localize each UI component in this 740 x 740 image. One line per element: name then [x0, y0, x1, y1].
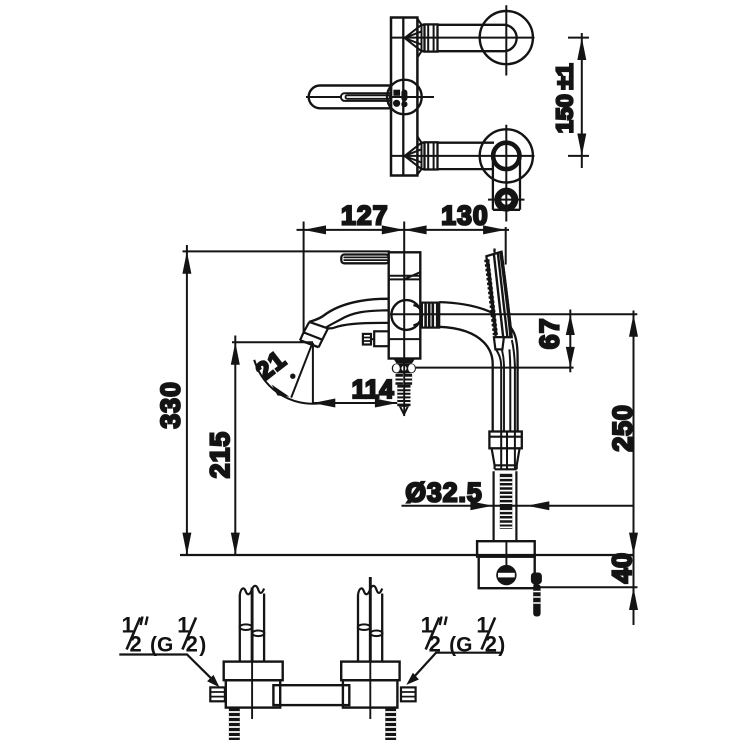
bottom union trumpet cone [405, 136, 422, 174]
ext line top of faucet (330) [183, 250, 391, 252]
dia 32.5 right arrow [527, 501, 549, 510]
lever slot inner [346, 95, 391, 99]
shower elbow downpipe [493, 158, 520, 210]
svg-text:330: 330 [156, 381, 186, 429]
shower head top nub [493, 249, 495, 253]
dia 32.5 left arrow [470, 501, 492, 510]
hose lower curve [439, 327, 493, 432]
hot indicator square [393, 90, 400, 96]
svg-text:130: 130 [441, 201, 489, 231]
coupling inner lines [501, 432, 515, 470]
hose nipple tip [399, 406, 409, 416]
svg-text:(G: (G [150, 634, 173, 657]
21deg arc arrowhead [272, 385, 290, 397]
dim line 150 [581, 33, 583, 168]
left pipe break (tube end ellipses) [240, 624, 253, 630]
hook knuckle [531, 573, 542, 585]
spout tip seam 2 [304, 332, 323, 339]
diverter horizontal centerline / 67-250 upper ext line [390, 313, 637, 315]
lever handle (plan) [309, 86, 391, 109]
faucet body (front) [389, 252, 421, 358]
dim line 114 [313, 402, 397, 404]
diverter knob [422, 303, 439, 328]
dim line 215 [234, 336, 236, 556]
top wall flange circle [480, 11, 533, 64]
deck mounting line [180, 554, 634, 556]
arrow 330 top [182, 251, 191, 273]
hose coupling taper [492, 448, 520, 469]
bracket body [479, 557, 535, 589]
arrow 215 top [231, 342, 240, 364]
diverter circle [391, 300, 421, 330]
left union block upper [224, 662, 283, 681]
hose coupling upper [489, 432, 521, 449]
hose upper curve [439, 302, 517, 431]
svg-text:215: 215 [205, 431, 235, 479]
bracket screw [496, 565, 516, 585]
faucet body plate (plan) [391, 18, 417, 176]
ext line spout tip [303, 222, 305, 335]
spout middle curve [326, 310, 389, 327]
top union trumpet cone [405, 19, 422, 58]
left supply pipe (twin tubes) [240, 594, 264, 662]
dim line 127 / 130 [297, 229, 510, 231]
arrow 150 bottom [577, 134, 586, 156]
indicator bar [401, 90, 407, 102]
dia 32.5 leader line [402, 505, 634, 507]
hose inner line 3 [508, 349, 511, 431]
hose nipple upper [396, 374, 413, 385]
right supply pipe (twin tubes) [358, 594, 382, 662]
21deg degree dot [290, 374, 295, 379]
bottom flange horizontal centerline [390, 155, 535, 157]
top supply pipe [438, 25, 506, 51]
ext line faucet centerline (front view axis) [403, 222, 405, 405]
corrugated hose coil [500, 474, 513, 529]
top pipe end cap arc [505, 25, 517, 51]
holder tube outer [494, 471, 517, 541]
ext line 150 top [568, 37, 589, 39]
hose nipple ribbed [397, 385, 410, 406]
left pipe twin junction line [251, 588, 254, 662]
arrow 150 top [577, 38, 586, 60]
arrow 114 left [313, 399, 335, 408]
top union neck [422, 25, 425, 51]
right label fraction slashes and quotes [426, 618, 495, 650]
svg-text:150 ±1: 150 ±1 [552, 63, 578, 133]
arrow 67 top [566, 314, 575, 335]
indicator bar dot [401, 101, 407, 107]
bottom supply pipe [438, 143, 495, 169]
hose inner line 4 [512, 340, 515, 431]
ring horizontal centerline [488, 199, 525, 201]
left label leader [119, 655, 216, 684]
body cover seam line [402, 18, 404, 176]
shower outlet collar [394, 359, 416, 364]
bracket centerline [505, 541, 507, 566]
left label fraction slashes and quotes [127, 618, 196, 650]
lever centerline [306, 96, 434, 98]
21deg arc [254, 360, 328, 404]
hose inner line 1 [496, 349, 501, 431]
top flange horizontal centerline [390, 37, 535, 39]
svg-text:21: 21 [251, 345, 292, 385]
ext line shower head axis [505, 227, 507, 265]
right label half inch [421, 612, 506, 656]
lever slot outer [341, 93, 391, 101]
arrow 127 left [304, 225, 326, 234]
spout tip seam 1 [309, 322, 328, 329]
bottom union neck [422, 143, 425, 169]
shower elbow tube (thick circle) [493, 143, 519, 169]
dim line 250/40 [633, 311, 635, 626]
arrow 114 right [375, 399, 397, 408]
arrow 127 right [382, 225, 404, 234]
bottom wall flange circle [480, 129, 533, 182]
right union block lower [343, 680, 398, 707]
svg-text:67: 67 [535, 317, 565, 349]
ext line spout outlet (215) [232, 341, 313, 343]
arrow 67 bottom [566, 347, 575, 368]
ext line 40 bottom [537, 586, 638, 588]
body lower seam [389, 338, 421, 340]
arrow 250 top [629, 314, 638, 336]
lever bar (front) [341, 255, 388, 264]
left union block lower [226, 680, 280, 707]
svg-text:127: 127 [341, 201, 389, 231]
hose outlet black ring [498, 191, 515, 208]
body cap seams [389, 272, 421, 279]
svg-text:114: 114 [352, 376, 395, 404]
shower head body (white over hose) [486, 252, 511, 338]
hook pin [533, 584, 540, 617]
shower head inner lines [494, 253, 508, 337]
arrow 215 bottom [231, 533, 240, 555]
bottom union nut [425, 142, 438, 169]
right hex nut [401, 687, 416, 701]
left pipe break (scallops) [240, 586, 264, 595]
svg-text:): ) [199, 634, 206, 657]
21deg vertical ref line [312, 343, 314, 404]
svg-text:40: 40 [607, 552, 637, 583]
ext line 67 bottom [416, 367, 574, 369]
spout bottom curve [328, 323, 389, 329]
lever bar inner lines [344, 257, 389, 260]
left threaded stud [229, 707, 240, 740]
spout tip left edge [300, 322, 309, 340]
arrow 250 bottom [629, 533, 638, 555]
check valve screw [374, 331, 389, 346]
arrow 130 left [404, 225, 426, 234]
connecting body bar [273, 685, 349, 705]
bracket top plate [477, 541, 535, 556]
left hex nut [210, 687, 225, 701]
hose inner line 2 [502, 349, 504, 431]
dim line 67 [569, 310, 571, 373]
svg-text:250: 250 [607, 404, 637, 451]
right pipe twin junction line [369, 577, 372, 662]
shower outlet ball nut [392, 364, 416, 374]
dim line 330 [186, 245, 188, 555]
21deg stream line [291, 343, 312, 398]
right pipe break (scallops) [358, 586, 382, 595]
body centerline over nipple [403, 359, 405, 417]
cold indicator dot [393, 100, 400, 107]
top flange vertical centerline [505, 5, 507, 75]
spout aerator end face [300, 340, 319, 347]
arrow 40 bottom (outside) [629, 588, 638, 610]
shower head spray serration [487, 260, 496, 336]
right pipe break (tube end ellipses) [358, 624, 371, 630]
cartridge cap circle [387, 80, 422, 115]
arrow 130 right [483, 225, 505, 234]
right label leader [410, 653, 502, 682]
right union block upper [341, 662, 399, 681]
spout tip right edge [319, 328, 328, 347]
diverter second arc [413, 305, 422, 325]
shower head handle cone [494, 337, 504, 349]
arrow 330 bottom [182, 533, 191, 555]
bottom flange vertical centerline [505, 125, 507, 222]
spout top curve [309, 299, 388, 322]
top union nut [425, 24, 438, 51]
right threaded stud [385, 707, 396, 740]
ext line 150 bottom [568, 155, 589, 157]
left label half inch [122, 612, 207, 656]
